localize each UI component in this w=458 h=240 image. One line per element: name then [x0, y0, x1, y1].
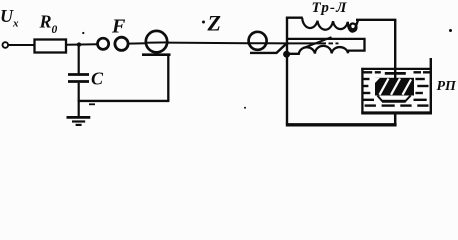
svg-text:Тр-Л: Тр-Л: [312, 0, 348, 16]
core line dashes: [329, 42, 334, 44]
wire top bend to primary: [286, 17, 303, 19]
ink speck mid: [244, 107, 246, 109]
terminal circle: [3, 42, 9, 48]
capacitor C bottom plate: [68, 80, 89, 83]
wire Z line: [167, 42, 248, 45]
node junction dot at capacitor tap: [77, 42, 81, 46]
line through device 2: [247, 42, 268, 44]
bowl base: [382, 100, 406, 103]
primary winding end loop: [348, 19, 359, 31]
ink speck top right: [449, 29, 452, 32]
stub rail up to bath bottom: [394, 113, 397, 125]
RP device bowl support: [378, 96, 411, 101]
svg-text:C: C: [91, 69, 104, 89]
bottom return wire: [78, 100, 170, 102]
capacitor C top plate: [68, 73, 89, 76]
sphere gap F ball 1: [98, 38, 109, 49]
line through device 1: [145, 41, 169, 43]
svg-text:Z: Z: [207, 11, 221, 36]
sphere gap F ball 2: [115, 37, 128, 50]
main vertical wire at transformer left: [286, 17, 288, 125]
bar under device 2 rising to node: [250, 44, 286, 53]
electrode crossbar: [385, 72, 406, 75]
RP bath box top edge: [361, 68, 430, 70]
wire down to capacitor: [78, 45, 80, 74]
bar under device 1: [142, 53, 171, 56]
wire gap to coupling capacitor 1: [129, 42, 147, 44]
bottom rail to RP: [286, 123, 397, 126]
resistor R0: [35, 40, 67, 53]
wire device1 bar down: [167, 55, 169, 101]
svg-text:РП: РП: [437, 79, 458, 94]
ink dash below return wire: [89, 103, 95, 105]
liquid dashes: [362, 72, 431, 105]
wire primary to RP electrode: [356, 19, 396, 21]
vertical wire down into RP bath: [394, 20, 396, 80]
coupling device 1 circle: [146, 31, 167, 52]
core diagonal stroke: [304, 37, 332, 48]
ground: [67, 117, 91, 125]
svg-text:F: F: [111, 15, 126, 37]
core line: [288, 42, 326, 44]
RP device body (hatched block): [375, 78, 414, 96]
ink speck above wire: [82, 32, 84, 34]
coupling device 2 circle: [249, 32, 267, 50]
wire device2 to transformer node: [267, 42, 288, 44]
RP bath box left edge: [361, 68, 363, 114]
RP bath box right edge: [430, 58, 432, 114]
transformer Tr-L primary winding: [302, 18, 348, 30]
label Z: [202, 21, 205, 24]
wire R0 to sphere gap: [66, 43, 98, 46]
wire capacitor to ground: [78, 83, 80, 117]
secondary return wire hook: [288, 39, 365, 51]
transformer Tr-L secondary winding: [288, 46, 349, 54]
RP bath box bottom edge: [361, 111, 432, 114]
wire terminal to R0: [9, 44, 35, 46]
junction dot at secondary left end: [283, 51, 290, 58]
